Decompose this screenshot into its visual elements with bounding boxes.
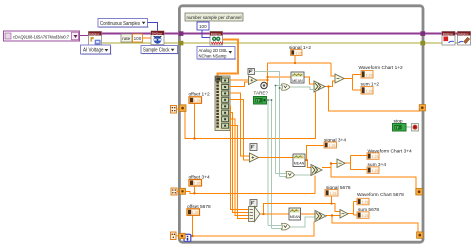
wire offset5678 down [192, 213, 194, 237]
or gate 1 [282, 84, 291, 91]
wires channels from index array [230, 80, 250, 219]
constant 100 blue [197, 22, 209, 30]
svg-text:DAQmx: DAQmx [443, 32, 454, 36]
indicator signal 3+4 [324, 142, 337, 148]
wire mean3 to select3 [301, 213, 316, 215]
iteration terminal i [184, 234, 191, 241]
wire read output 2D array [218, 40, 239, 77]
wire enum to timing [148, 23, 158, 32]
orange wires row 1+2 [185, 55, 420, 139]
boolean wires teal [255, 72, 412, 229]
svg-text:1.23: 1.23 [372, 169, 379, 173]
wire bool vertical c [275, 86, 277, 174]
control offset 3+4 [189, 180, 202, 187]
wire triangle1 out [344, 78, 353, 80]
wire select2 out [322, 164, 337, 168]
wire stop to cond [406, 126, 412, 128]
svg-text:1.23: 1.23 [194, 182, 201, 186]
label number sample per channel [185, 13, 243, 21]
wire error olive main [102, 42, 460, 44]
wire offset12 down [194, 104, 196, 139]
AI Voltage dropdown [81, 45, 112, 55]
wire or1 out [290, 87, 314, 90]
svg-text:1.23: 1.23 [192, 211, 199, 215]
svg-text:DAQmx: DAQmx [211, 32, 222, 36]
svg-text:1.23: 1.23 [362, 201, 369, 205]
wire select1 to SR1 right [329, 87, 420, 112]
svg-text:100: 100 [199, 24, 207, 29]
teal junction dots [267, 99, 269, 101]
indicator signal 5678 [325, 190, 338, 197]
DAQmx Clear Task VI [458, 32, 471, 46]
shift register left 3 init [171, 232, 179, 240]
wire task purple main [80, 34, 460, 44]
DAQmx Create Virtual Channel VI [89, 32, 102, 46]
wire bus1 to triangle1 [331, 63, 335, 76]
wire compound out to mean3 [260, 213, 290, 215]
wire or3 out [290, 217, 315, 227]
control offset 1+2 [189, 97, 202, 104]
svg-text:MEAN: MEAN [290, 215, 301, 219]
wire select2 to SR2 right [331, 164, 416, 191]
wire bus1 top [268, 62, 332, 64]
orange wires row 3+4 [186, 146, 416, 194]
wire bracket3 [353, 202, 355, 216]
svg-text:TARE?: TARE? [254, 91, 269, 96]
first call node Fs1 [248, 69, 255, 75]
junction dots row1 [193, 137, 195, 139]
svg-text:1.23: 1.23 [362, 214, 369, 218]
control offset 5678 [187, 209, 200, 216]
select node 1 [314, 81, 325, 92]
indicator sum 5678 [357, 212, 369, 219]
indicator Waveform Chart 3+4 [367, 153, 379, 160]
wire tare out [267, 99, 272, 101]
svg-text:1.23: 1.23 [194, 99, 201, 103]
svg-text:NChan NSamp: NChan NSamp [199, 54, 227, 60]
MEAN VI 3 [289, 208, 301, 220]
MEAN VI 1 [291, 72, 304, 83]
shift register right 1 [419, 105, 425, 111]
shift register left 3 [179, 233, 185, 238]
shift register left 2 init [171, 188, 180, 195]
Sample Clock dropdown [141, 46, 179, 55]
compound add 5678 [249, 207, 261, 222]
svg-text:Waveform Chart 5678: Waveform Chart 5678 [357, 192, 404, 198]
MEAN VI 2 [293, 154, 305, 167]
wire 100 to read [202, 30, 210, 38]
svg-text:Continuous Samples: Continuous Samples [100, 21, 140, 27]
svg-text:DAQmx: DAQmx [89, 32, 100, 36]
shift register left 1 [179, 105, 186, 112]
junction dots row2 [193, 192, 195, 194]
wire tare vertical a [267, 100, 269, 226]
round node [261, 82, 267, 88]
wire signal12 stub [294, 55, 296, 63]
wire bracket1 [352, 75, 354, 91]
while loop border [179, 6, 423, 242]
svg-text:1.23: 1.23 [372, 155, 379, 159]
shift register right 3 [417, 232, 423, 238]
svg-text:100: 100 [134, 36, 142, 41]
indicator sum 1+2 [361, 87, 373, 95]
DAQmx physical channel constant [4, 31, 80, 41]
or gate 3 [282, 223, 291, 230]
svg-text:Sample Clock: Sample Clock [143, 48, 170, 54]
first call node Fs3 [250, 200, 257, 207]
select node 3 [315, 211, 326, 222]
indicator signal 1+2 [291, 50, 303, 56]
boolean stop button [393, 124, 407, 132]
DAQmx Timing VI [151, 31, 164, 45]
add function 1+2 [249, 76, 258, 85]
svg-text:1.23: 1.23 [295, 51, 302, 55]
DAQmx Stop Task VI [442, 32, 455, 46]
wire add34 out to mean2 [259, 157, 293, 159]
wire tare vertical b [271, 100, 273, 229]
wire rate to timing [143, 37, 152, 39]
svg-text:1.23: 1.23 [330, 192, 337, 196]
svg-text:MEAN: MEAN [292, 79, 303, 83]
wire signal5678 stub [331, 196, 333, 204]
shift register left 2 [180, 188, 186, 194]
wire mean2 to select2 [305, 160, 311, 168]
svg-text:DAQmx: DAQmx [152, 31, 163, 35]
add function 3+4 [250, 153, 259, 162]
Index Array node [215, 76, 230, 131]
wire signal34 branch [307, 146, 325, 161]
wire select3 to SR3 right [332, 216, 418, 234]
wire mean1 to subtract1 [304, 77, 314, 84]
wire subtract1 to triangle1 [325, 81, 335, 87]
Continuous Samples dropdown [98, 19, 149, 28]
wire SR2 feed [186, 176, 316, 194]
output triangle 2 [337, 159, 345, 168]
tunnel olive left [179, 41, 184, 46]
wire select3 out [326, 215, 340, 217]
svg-text:1.23: 1.23 [366, 73, 373, 77]
wire SR1 feed [185, 92, 315, 139]
tunnel purple left [179, 31, 184, 36]
indicator Waveform Chart 1+2 [361, 71, 373, 79]
loop condition terminal [412, 124, 419, 132]
shift register right 2 [416, 188, 423, 195]
wire offset34 down [194, 186, 196, 193]
first call node Fs2 [250, 144, 257, 151]
svg-text:AI Voltage: AI Voltage [83, 48, 104, 54]
wire add12 out to bus [258, 79, 268, 81]
indicator Waveform Chart 5678 [357, 198, 369, 205]
wire bus1 to mean1 [268, 76, 292, 78]
boolean TARE button [254, 97, 267, 105]
wire triangle2 out [344, 162, 351, 164]
junction dots row3 [191, 235, 193, 237]
output triangle 3 [340, 210, 348, 219]
tunnel purple right [420, 31, 425, 36]
index array cells [216, 78, 228, 128]
shift register left 1 init [171, 106, 180, 114]
or gate 2 [286, 171, 295, 178]
wire bus3 [264, 204, 341, 215]
svg-text:1.23: 1.23 [366, 89, 373, 93]
wire SR3 feed [185, 222, 314, 237]
indicator sum 3+4 [367, 167, 379, 174]
Analog 2D DBL NChan NSamp dropdown [197, 47, 236, 60]
svg-text:MEAN: MEAN [294, 162, 305, 166]
orange wires row 5678 [185, 196, 418, 236]
svg-text:1.23: 1.23 [329, 144, 336, 148]
svg-text:cDAQ9188-165A767Mod3/ai0:7: cDAQ9188-165A767Mod3/ai0:7 [13, 35, 69, 40]
svg-text:DAQmx: DAQmx [458, 32, 469, 36]
wire or2 out [294, 174, 311, 176]
rate label [121, 34, 132, 42]
svg-text:number sample per channel: number sample per channel [187, 15, 242, 20]
DAQmx Read VI [210, 32, 223, 46]
svg-text:Analog 2D DBL: Analog 2D DBL [199, 48, 228, 54]
rate constant 100 [133, 34, 143, 42]
wire firstcall vertical d [255, 72, 280, 177]
svg-text:Waveform Chart 1+2: Waveform Chart 1+2 [359, 65, 404, 71]
wire bracket2 [350, 156, 352, 170]
output triangle 1 [335, 74, 344, 83]
wire bus1 vertical [267, 63, 269, 85]
tunnel olive right [420, 41, 425, 46]
wire triangle3 out [348, 213, 354, 215]
select node 2 [311, 165, 322, 176]
svg-text:rate: rate [122, 36, 130, 41]
